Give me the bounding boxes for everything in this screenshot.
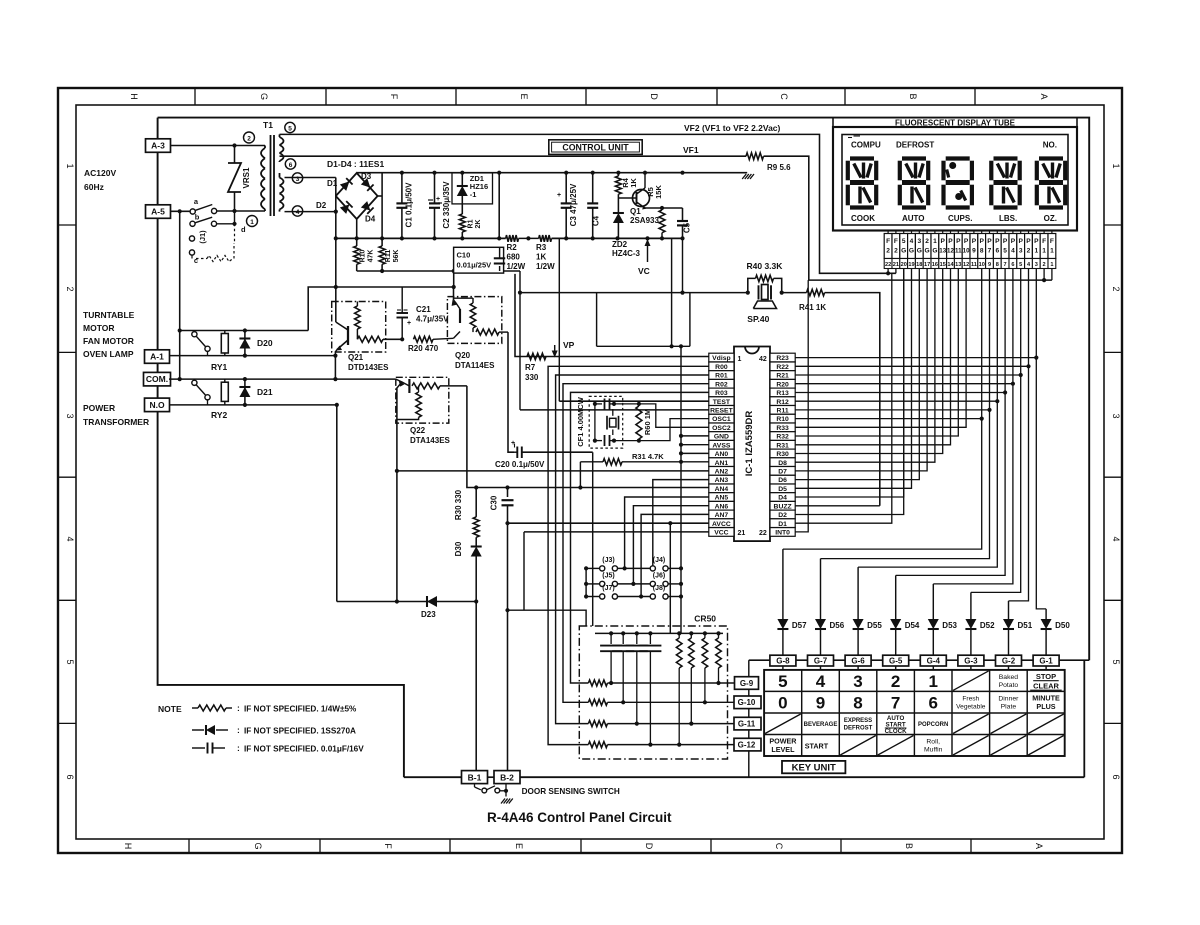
svg-text:R7: R7 (525, 363, 536, 372)
svg-text::: : (237, 743, 240, 753)
svg-text:8: 8 (853, 693, 862, 712)
svg-text:1: 1 (1111, 163, 1121, 168)
svg-text:FAN MOTOR: FAN MOTOR (83, 336, 134, 346)
wire relay +rail riser (308, 287, 454, 331)
wire Q22 out down to AN4 net (467, 386, 476, 488)
wire D23 row (337, 601, 476, 603)
ground door switch (505, 791, 507, 797)
svg-text:Q21: Q21 (348, 353, 364, 362)
wire to D23 (336, 405, 338, 602)
svg-text:R02: R02 (715, 381, 728, 388)
capacitor C5 (662, 207, 683, 209)
svg-text:A: A (1039, 93, 1049, 99)
svg-text:0.01μ/25V: 0.01μ/25V (457, 261, 492, 270)
svg-text:Q22: Q22 (410, 426, 426, 435)
svg-text:F: F (1042, 238, 1046, 245)
svg-text:R22: R22 (776, 364, 789, 371)
svg-text:INT0: INT0 (775, 530, 790, 537)
svg-text:F: F (389, 94, 399, 100)
terminal G-7 (808, 655, 834, 666)
svg-text:19: 19 (908, 262, 914, 268)
border frame inner (76, 105, 1104, 839)
svg-text:(J1): (J1) (198, 230, 207, 244)
wire Vdisp R00-R03 buses (548, 366, 709, 744)
transformer secondary bottom (279, 173, 281, 178)
svg-text:EXPRESS: EXPRESS (844, 718, 872, 724)
svg-text:R3: R3 (536, 243, 547, 252)
svg-text:RESET: RESET (710, 408, 734, 415)
node 5 circled (285, 122, 295, 132)
svg-text:-1: -1 (470, 190, 477, 199)
diode D30 (475, 537, 477, 545)
svg-text:P: P (964, 238, 969, 245)
svg-text:1/2W: 1/2W (536, 262, 555, 271)
IC U1 IZA559DR body (734, 347, 770, 542)
label VP arrow (554, 345, 556, 355)
svg-text:VCC: VCC (714, 530, 728, 537)
svg-text:(J5): (J5) (602, 572, 614, 579)
svg-text:LEVEL: LEVEL (771, 745, 795, 754)
svg-text:START: START (805, 742, 829, 751)
svg-text:R9 5.6: R9 5.6 (767, 163, 791, 172)
capacitor C4 (592, 173, 594, 204)
wire AC input 4 to bridge (285, 211, 336, 213)
svg-text:G-4: G-4 (927, 657, 941, 666)
svg-text:COM.: COM. (146, 374, 168, 384)
relay RY1 coil (221, 334, 228, 354)
svg-text:Vdisp: Vdisp (712, 355, 731, 362)
svg-text:5: 5 (288, 125, 292, 132)
svg-text:G-8: G-8 (776, 657, 790, 666)
wire N.O row (169, 404, 337, 406)
wire A-3 to VRS1 (170, 145, 235, 147)
svg-text:3: 3 (1111, 413, 1121, 418)
transistor Q20 DTA114ES box (447, 297, 501, 344)
svg-text:CLEAR: CLEAR (1033, 681, 1059, 690)
svg-text:+: + (557, 192, 561, 199)
svg-text:1: 1 (738, 356, 742, 363)
svg-text:VRS1: VRS1 (242, 167, 251, 188)
terminal G-8 (770, 655, 796, 666)
svg-text:(J3): (J3) (602, 557, 614, 564)
resistor Q20 output (476, 329, 499, 335)
svg-text:1: 1 (250, 219, 254, 226)
resistor Q22 output (412, 383, 440, 389)
svg-text:(J7): (J7) (602, 585, 614, 592)
svg-text:3: 3 (853, 672, 862, 691)
terminal B-2 (494, 771, 520, 784)
svg-text:4: 4 (65, 536, 75, 541)
svg-text:E: E (514, 843, 524, 849)
svg-text:2: 2 (1111, 286, 1121, 291)
node 1 circled (247, 216, 258, 227)
svg-text:F: F (894, 238, 898, 245)
svg-text:R10: R10 (360, 249, 367, 262)
CR50 dashed box (579, 626, 727, 759)
svg-text:R20: R20 (776, 381, 789, 388)
svg-text:Vegetable: Vegetable (956, 703, 986, 710)
svg-text:R03: R03 (715, 390, 728, 397)
diode D52 (970, 592, 972, 619)
svg-text:21: 21 (893, 262, 899, 268)
svg-text:6: 6 (289, 162, 293, 169)
bridge rectifier D1-D4 (336, 173, 378, 219)
svg-text:R23: R23 (776, 355, 789, 362)
svg-text:P: P (972, 238, 977, 245)
svg-text:D56: D56 (830, 621, 845, 630)
wire A-5 row (170, 210, 190, 212)
wire G chain vertical (748, 660, 750, 677)
svg-text:R30: R30 (776, 451, 789, 458)
diode D23 (427, 596, 437, 607)
svg-text:1: 1 (928, 672, 937, 691)
svg-text:1: 1 (933, 238, 937, 245)
svg-text:A-1: A-1 (150, 352, 164, 362)
resistor R31 4.7K AN1 (580, 461, 603, 463)
resonator caps and crystal (595, 403, 602, 405)
svg-text:P: P (1003, 238, 1008, 245)
resistor R60 1M (614, 403, 639, 405)
transistor Q1 2SA933 (617, 194, 619, 213)
svg-text:G: G (932, 248, 937, 255)
svg-text:D: D (649, 93, 659, 100)
svg-text:COOK: COOK (851, 214, 875, 223)
svg-text:D: D (644, 843, 654, 850)
svg-text:AN2: AN2 (715, 469, 729, 476)
relay RY1 contact (192, 332, 197, 337)
svg-text:G-9: G-9 (740, 679, 754, 688)
svg-text:6: 6 (928, 693, 937, 712)
wire AN2 long (397, 470, 709, 472)
svg-text:D2: D2 (778, 512, 787, 519)
svg-text:P: P (1018, 238, 1023, 245)
wire gnd bus down to CR50 (680, 346, 682, 633)
svg-text:D51: D51 (1018, 621, 1033, 630)
svg-text:2: 2 (65, 286, 75, 291)
svg-text:C21: C21 (416, 305, 431, 314)
svg-text:AVCC: AVCC (712, 521, 731, 528)
transistor Q22 (396, 379, 410, 386)
svg-text:11: 11 (971, 262, 977, 268)
CR50 capacitors (609, 631, 613, 635)
svg-text:FLUORESCENT DISPLAY TUBE: FLUORESCENT DISPLAY TUBE (895, 119, 1016, 128)
wire top rail + (356, 172, 358, 174)
svg-text:STOP: STOP (1036, 672, 1056, 681)
wire R10 R11 bottom net (357, 270, 520, 272)
diode D2 (340, 201, 353, 214)
wire riser to relay rail (453, 271, 455, 287)
wire bridge left vertical (335, 178, 337, 288)
svg-text:C30: C30 (490, 495, 499, 510)
label VC arrow (647, 242, 649, 262)
svg-text:G-6: G-6 (851, 657, 865, 666)
svg-text:D21: D21 (257, 387, 273, 397)
wire VCC left (508, 610, 587, 626)
svg-text:47K: 47K (368, 250, 375, 263)
svg-text:D1-D4 : 11ES1: D1-D4 : 11ES1 (327, 159, 384, 169)
svg-text:(J6): (J6) (653, 572, 665, 579)
svg-text:MOTOR: MOTOR (83, 323, 114, 333)
wire AN6 (633, 506, 708, 584)
svg-text:SP.40: SP.40 (747, 314, 769, 324)
svg-text:7: 7 (891, 693, 900, 712)
svg-text:OSC2: OSC2 (712, 425, 731, 432)
svg-text:T1: T1 (263, 120, 273, 130)
wire INT0 net (795, 280, 808, 532)
display digit 2 (902, 156, 926, 160)
resistor R40 3.3K (748, 278, 756, 292)
svg-text:0: 0 (778, 693, 787, 712)
fluorescent display tube inner box (842, 135, 1068, 226)
frame grid numbers sides (58, 224, 76, 226)
terminal A-1 (145, 350, 170, 364)
svg-text:1K: 1K (629, 178, 638, 188)
svg-text:AN0: AN0 (715, 451, 729, 458)
terminal G-1 (1033, 655, 1059, 666)
speaker horn (753, 301, 776, 309)
transistor Q21 DTD143ES box (332, 302, 386, 353)
capacitor C2 (434, 173, 436, 204)
wire AN0 pin (681, 452, 709, 454)
svg-text:POPCORN: POPCORN (918, 722, 948, 728)
wire COM row RY2 rail (169, 378, 396, 380)
fluorescent display tube outer box (833, 127, 1077, 231)
svg-text:CR50: CR50 (694, 614, 716, 624)
terminal B-1 (462, 771, 488, 784)
svg-text:TURNTABLE: TURNTABLE (83, 310, 135, 320)
display digit 5 (1039, 156, 1063, 160)
svg-text:6: 6 (1111, 774, 1121, 779)
svg-text:IF NOT SPECIFIED. 1/4W±5%: IF NOT SPECIFIED. 1/4W±5% (244, 705, 357, 714)
svg-text:R11: R11 (777, 408, 789, 415)
svg-text:D54: D54 (905, 621, 920, 630)
svg-text:R32: R32 (776, 434, 789, 441)
svg-text:P: P (1011, 238, 1016, 245)
relay RY2 contact (192, 380, 197, 385)
svg-text:13: 13 (939, 248, 946, 255)
svg-text:5: 5 (902, 238, 906, 245)
display digit 4 (994, 156, 1018, 160)
key unit label box (782, 761, 845, 773)
svg-text:G: G (259, 93, 269, 100)
transformer secondary top (279, 134, 281, 137)
svg-text::: : (237, 703, 240, 713)
svg-text:13: 13 (955, 262, 961, 268)
svg-text:c: c (194, 256, 198, 265)
svg-text:4: 4 (816, 672, 826, 691)
terminal G-9 to G-12 (735, 677, 759, 690)
svg-text:R11: R11 (385, 250, 392, 263)
svg-text:B-1: B-1 (468, 773, 482, 783)
svg-text:D6: D6 (778, 477, 787, 484)
svg-text:3: 3 (65, 413, 75, 418)
svg-text:D20: D20 (257, 338, 273, 348)
svg-text:4: 4 (910, 238, 914, 245)
wire AVCC riser to CR50 (669, 523, 671, 633)
svg-text:5: 5 (1019, 262, 1022, 268)
note capacitor (192, 747, 205, 749)
svg-text:D5: D5 (778, 486, 787, 493)
wire AN3 (653, 480, 709, 566)
svg-text:C: C (774, 843, 784, 850)
terminal G-3 (958, 655, 984, 666)
svg-text:P: P (1034, 238, 1039, 245)
svg-text:B-2: B-2 (500, 773, 514, 783)
wire A-5 bus down (179, 331, 181, 380)
svg-text:Dinner: Dinner (998, 696, 1019, 703)
resistor R9 (746, 153, 764, 160)
svg-text:R20 470: R20 470 (408, 344, 439, 353)
svg-text:D30: D30 (454, 541, 463, 556)
svg-text:NOTE: NOTE (158, 704, 182, 714)
svg-text:D7: D7 (778, 469, 787, 476)
svg-text:3: 3 (1019, 248, 1023, 255)
svg-text:AN3: AN3 (715, 477, 729, 484)
svg-text:BUZZ: BUZZ (774, 503, 792, 510)
svg-text:Potato: Potato (999, 682, 1019, 689)
svg-text:C3 47μ/25V: C3 47μ/25V (569, 183, 578, 226)
node 3 circled (292, 173, 302, 183)
svg-text:HZ4C-3: HZ4C-3 (612, 249, 641, 258)
jumper left vertical (585, 568, 587, 596)
wire Q20 to C20 (508, 332, 514, 452)
svg-text:R21: R21 (776, 373, 789, 380)
svg-text:AN6: AN6 (715, 503, 729, 510)
svg-text:RY1: RY1 (211, 362, 227, 372)
resistor R7 330 (527, 353, 546, 359)
diode D57 (782, 549, 784, 619)
svg-text:AN1: AN1 (715, 460, 729, 467)
svg-text:5: 5 (778, 672, 787, 691)
diode D56 (820, 559, 822, 619)
capacitor C30 (507, 488, 509, 498)
svg-text:D1: D1 (778, 521, 787, 528)
svg-text:VC: VC (638, 266, 650, 276)
svg-text:18: 18 (916, 262, 922, 268)
display digit 1 (850, 156, 874, 160)
svg-text:2SA933: 2SA933 (630, 216, 659, 225)
svg-text:1: 1 (1050, 248, 1054, 255)
svg-text:OZ.: OZ. (1044, 214, 1057, 223)
svg-text:D4: D4 (778, 495, 787, 502)
switch J1 contact c (189, 236, 194, 241)
transformer core (270, 135, 272, 216)
svg-text:+: + (407, 320, 411, 327)
svg-text:R33: R33 (776, 425, 789, 432)
transistor Q22 DTA143ES box (396, 377, 449, 423)
svg-text:DEFROST: DEFROST (896, 141, 934, 150)
svg-text:A-5: A-5 (151, 207, 165, 217)
svg-text:22: 22 (759, 530, 767, 537)
svg-text:8: 8 (996, 262, 999, 268)
capacitor C3 (565, 173, 567, 204)
wire to ground near R9 (646, 172, 748, 174)
svg-text:R30 330: R30 330 (454, 489, 463, 520)
svg-text:12: 12 (947, 248, 954, 255)
svg-text:4: 4 (1011, 248, 1015, 255)
svg-text:AUTO: AUTO (902, 214, 925, 223)
label VC vertical x671 (671, 238, 673, 346)
svg-text:9: 9 (988, 262, 991, 268)
svg-text:5: 5 (65, 659, 75, 664)
svg-text:60Hz: 60Hz (84, 182, 104, 192)
wire main outline top-right (158, 118, 1090, 661)
svg-text:G: G (909, 248, 914, 255)
node 6 circled (285, 159, 295, 169)
svg-text:+: + (436, 196, 440, 203)
svg-text:A: A (1034, 843, 1044, 849)
terminal A-3 (146, 139, 171, 153)
svg-text:1: 1 (1050, 262, 1053, 268)
svg-text:G-7: G-7 (814, 657, 828, 666)
svg-text:CLOCK: CLOCK (885, 728, 908, 735)
svg-text:Roll,: Roll, (926, 739, 940, 746)
wire bridge right vertical (378, 195, 383, 197)
svg-text:B: B (908, 93, 918, 99)
wire A-1 row (169, 355, 335, 357)
diode D53 (932, 584, 934, 619)
svg-text:6: 6 (1011, 262, 1014, 268)
svg-text:C5: C5 (683, 222, 692, 233)
svg-text:Plate: Plate (1001, 704, 1017, 711)
wire C10 top to rail (498, 173, 500, 239)
svg-text:R12: R12 (776, 399, 789, 406)
resistor R30 330 (475, 488, 477, 517)
transistor Q21 (335, 287, 337, 322)
svg-text:A-3: A-3 (151, 141, 165, 151)
svg-text:56K: 56K (393, 250, 400, 263)
svg-text:D52: D52 (980, 621, 995, 630)
svg-text:Fresh: Fresh (962, 696, 979, 703)
wire G box chain (749, 659, 1089, 661)
label fluorescent display tube (832, 118, 834, 127)
wire R41 buzz net (807, 289, 825, 295)
wire B-2 to keypad chain (520, 776, 1084, 778)
resistor Q20 internal pullup (470, 303, 476, 328)
svg-text:Baked: Baked (999, 674, 1018, 681)
svg-text:G: G (917, 248, 922, 255)
svg-text:10: 10 (979, 262, 985, 268)
svg-text:R40 3.3K: R40 3.3K (747, 261, 784, 271)
box ZD1 (452, 173, 493, 204)
svg-text:680: 680 (507, 253, 521, 262)
capacitor C1 (401, 173, 403, 204)
diode D54 (895, 575, 897, 619)
svg-text:KEY UNIT: KEY UNIT (792, 763, 836, 774)
keypad grid (764, 670, 1065, 756)
crystal (606, 416, 608, 430)
display tube leads to pin cells (887, 231, 889, 234)
diode D1 (340, 178, 353, 191)
svg-text:(J4): (J4) (653, 557, 665, 564)
svg-text:G: G (925, 248, 930, 255)
svg-text:2: 2 (1027, 248, 1031, 255)
wire P1-P8 columns to IC and key diodes (795, 357, 1036, 359)
keypad diag cells (953, 671, 989, 691)
svg-text:D4: D4 (365, 215, 376, 224)
svg-text:H: H (129, 93, 139, 100)
svg-text:1: 1 (1042, 248, 1046, 255)
svg-text:7: 7 (988, 248, 992, 255)
svg-text::: : (237, 725, 240, 735)
svg-text:4.7μ/35V: 4.7μ/35V (416, 315, 449, 324)
svg-text:TEST: TEST (713, 399, 731, 406)
svg-text:G-10: G-10 (738, 698, 756, 707)
svg-text:BEVERAGE: BEVERAGE (804, 722, 838, 728)
wire RY1 top rail (180, 330, 309, 332)
svg-text:IF NOT SPECIFIED. 1SS270A: IF NOT SPECIFIED. 1SS270A (244, 727, 356, 736)
svg-text:GND: GND (714, 434, 729, 441)
